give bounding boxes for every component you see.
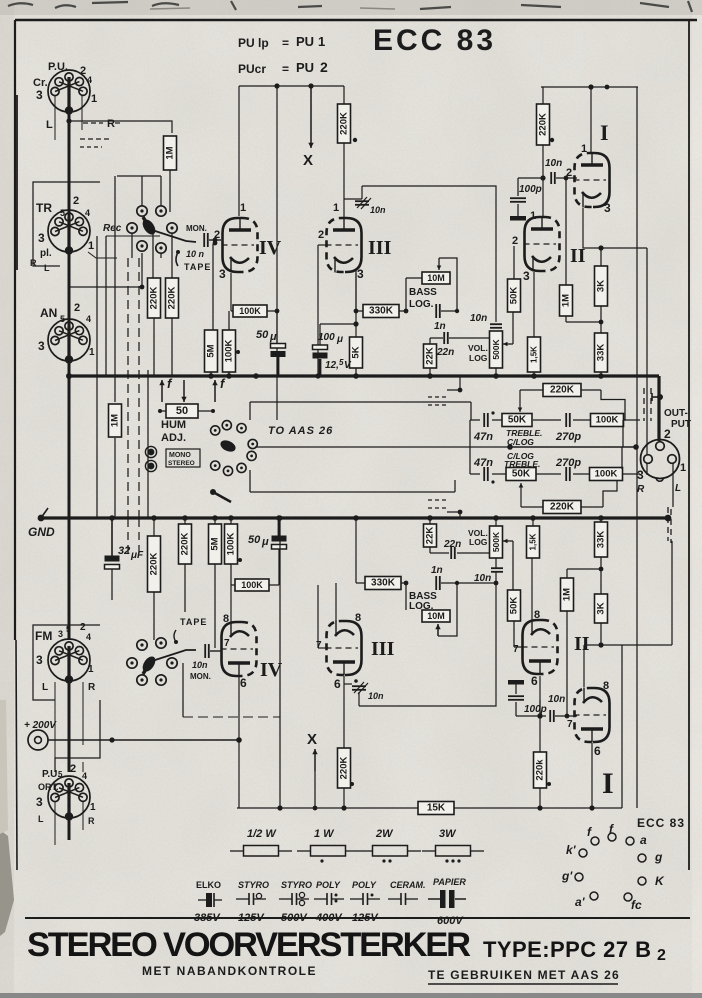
wire 1M down <box>169 170 171 212</box>
svg-text:1: 1 <box>680 462 686 474</box>
svg-text:220K: 220K <box>550 502 575 513</box>
connector TR (tape recorder) <box>48 210 90 255</box>
wire 220K-I joins <box>542 87 544 104</box>
node grid IV <box>213 241 218 246</box>
svg-text:6: 6 <box>594 744 601 758</box>
wire 220K fb bot leads <box>521 506 543 508</box>
wire right loop x638 <box>636 87 638 808</box>
capacitor 47n (top) <box>484 413 488 427</box>
resistor 1M (II grid bottom) <box>561 578 574 611</box>
svg-text:MON.: MON. <box>190 672 211 681</box>
svg-text:100p: 100p <box>524 704 547 715</box>
resistor 220K (rail b) <box>166 278 179 318</box>
svg-text:10n: 10n <box>368 691 384 701</box>
pinout ECC83 pins <box>591 837 599 845</box>
capacitor 22n (top) <box>444 332 448 344</box>
capacitor 32uF (bottom left) <box>105 556 120 570</box>
wire I b to right vert <box>584 644 672 646</box>
resistor 220k (II anode b) <box>534 752 547 788</box>
connector +200V <box>28 730 48 750</box>
connector FM (tuner) <box>48 639 90 684</box>
wire fb bottom loop <box>495 558 497 568</box>
wire tone right verticals <box>622 420 624 447</box>
wire 100p b join <box>515 702 517 716</box>
wire 32u <box>111 518 113 556</box>
svg-text:6: 6 <box>240 676 247 690</box>
wire 330K leads <box>356 310 363 312</box>
capacitor 270p (bot) <box>566 467 570 481</box>
wire 100u <box>319 324 321 345</box>
resistor 220K (I anode) <box>537 104 550 145</box>
svg-text:100p: 100p <box>519 184 542 195</box>
label MONO STEREO <box>166 449 200 467</box>
capacitor 10n (vol in top) <box>490 324 502 328</box>
svg-text:I: I <box>600 120 609 145</box>
wire aas top <box>250 401 471 403</box>
capacitor 47n (bot) <box>484 467 488 481</box>
wire TR center down <box>68 252 71 340</box>
svg-text:μ: μ <box>261 536 269 548</box>
svg-text:2: 2 <box>657 947 666 964</box>
wire 10M arrow <box>406 277 422 279</box>
svg-text:125V: 125V <box>352 912 379 924</box>
svg-text:10n: 10n <box>548 694 565 705</box>
svg-text:R: R <box>107 118 115 130</box>
capacitor 22n (bottom) <box>451 547 455 559</box>
wire heavy to output <box>657 376 660 441</box>
svg-text:32: 32 <box>118 545 130 557</box>
svg-text:k': k' <box>566 843 577 857</box>
svg-text:g: g <box>654 850 663 864</box>
svg-text:TR: TR <box>36 201 52 215</box>
resistor 220K (rail a) <box>148 278 161 318</box>
wire IV cathode down <box>230 273 232 311</box>
wire 50u b <box>278 518 281 536</box>
svg-text:3: 3 <box>38 339 45 353</box>
svg-text:22K: 22K <box>425 527 436 545</box>
wire FM through <box>68 517 71 640</box>
svg-text:10n: 10n <box>370 205 386 215</box>
svg-text:POLY: POLY <box>316 880 341 890</box>
svg-text:3: 3 <box>36 653 43 667</box>
resistor 50 (hum adj) <box>166 404 198 418</box>
wire mon cap to tube IV <box>209 239 221 241</box>
svg-text:33K: 33K <box>596 531 607 549</box>
svg-text:L: L <box>38 814 44 824</box>
wire 100K leads <box>231 310 233 312</box>
svg-text:2W: 2W <box>375 828 394 840</box>
wire fb b stub <box>344 683 352 685</box>
wire x344 segment <box>343 86 345 104</box>
wire aas mid <box>255 446 471 448</box>
wire tape hook top <box>176 252 178 266</box>
box around TR <box>33 182 100 266</box>
svg-text:2: 2 <box>320 59 328 75</box>
svg-text:1M: 1M <box>562 588 573 601</box>
wire mon b to tube IV <box>210 650 221 652</box>
switch lever top <box>140 217 158 237</box>
svg-text:100K: 100K <box>241 580 263 590</box>
svg-text:4: 4 <box>85 208 90 218</box>
node X bottom <box>314 749 316 771</box>
resistor 3K (I cath top) <box>595 266 608 306</box>
wire 220k pair down <box>153 318 155 376</box>
resistor 100K (IV cath R) <box>223 330 236 372</box>
svg-text:6: 6 <box>334 677 341 691</box>
wire PU pin L down <box>54 96 56 140</box>
svg-text:500K: 500K <box>491 338 501 359</box>
tube triode II bottom <box>522 620 558 675</box>
connector AN (aux) <box>48 319 90 364</box>
wire rail down x239 <box>238 86 240 216</box>
svg-text:R: R <box>30 258 37 268</box>
wire 500K wiper <box>503 343 513 345</box>
svg-text:15K: 15K <box>427 803 446 814</box>
wire 33K b <box>600 518 602 522</box>
svg-text:1M: 1M <box>561 294 572 307</box>
svg-text:50K: 50K <box>509 287 520 305</box>
wire rail x128 <box>127 258 129 517</box>
connector OUTPUT <box>641 440 680 479</box>
wire I anode up <box>590 87 592 153</box>
node dot 100K <box>236 350 240 354</box>
svg-text:22n: 22n <box>443 539 461 550</box>
wire rail x117 <box>114 176 116 402</box>
svg-text:TAPE: TAPE <box>180 617 207 627</box>
wire bottom GND bus <box>41 516 668 519</box>
svg-text:22K: 22K <box>425 347 436 365</box>
svg-text:220K: 220K <box>339 757 350 780</box>
node dot near 220K <box>353 138 357 142</box>
wire 330K b leads <box>356 582 365 584</box>
svg-text:10n: 10n <box>474 573 491 584</box>
wire 50 sides <box>160 410 166 412</box>
svg-text:=: = <box>282 36 289 50</box>
svg-text:STEREO: STEREO <box>168 460 195 467</box>
svg-text:PAPIER: PAPIER <box>433 877 466 887</box>
svg-text:STYRO: STYRO <box>281 880 312 890</box>
wire dashed pair near output <box>643 388 645 421</box>
svg-text:PU: PU <box>296 60 314 75</box>
svg-text:3K: 3K <box>596 602 607 614</box>
tube triode IV top <box>222 218 258 273</box>
svg-text:PU: PU <box>296 34 314 49</box>
svg-text:3W: 3W <box>439 828 457 840</box>
svg-text:a: a <box>640 833 647 847</box>
wire PUORT down <box>68 818 71 840</box>
wire 22n wires <box>430 337 443 339</box>
svg-text:HUM: HUM <box>161 419 186 431</box>
resistor 5M (IV grid leak b) <box>209 524 222 564</box>
resistor 50K (II grid bottom) <box>508 590 521 621</box>
svg-text:R: R <box>637 484 645 495</box>
svg-text:10M: 10M <box>427 611 445 621</box>
wire 5M 100K up <box>228 311 230 330</box>
svg-text:50K: 50K <box>508 415 527 426</box>
svg-text:50: 50 <box>256 329 269 341</box>
node bus dots a <box>208 373 214 379</box>
switch lever mid2 <box>210 489 216 495</box>
hatch on 10n fb b <box>354 682 364 693</box>
svg-text:MET NABANDKONTROLE: MET NABANDKONTROLE <box>142 964 317 978</box>
svg-text:100K: 100K <box>596 415 619 426</box>
svg-text:270p: 270p <box>555 431 581 443</box>
resistor 1M (II grid top) <box>560 285 573 316</box>
wire III grid left <box>318 244 326 246</box>
resistor 330K (III cath b) <box>365 577 401 590</box>
wire rail down x277 <box>276 86 278 420</box>
capacitor 100u (III cath bypass) <box>313 345 328 359</box>
svg-text:Rec: Rec <box>103 223 122 234</box>
svg-text:1: 1 <box>88 240 94 252</box>
svg-text:220K: 220K <box>180 533 191 556</box>
resistor 50K (II grid top) <box>508 279 521 312</box>
svg-text:220k: 220k <box>535 759 546 781</box>
svg-text:7: 7 <box>513 644 519 655</box>
svg-text:BASS: BASS <box>409 287 437 298</box>
resistor 5M (IV grid leak) <box>205 330 218 372</box>
svg-text:10 n: 10 n <box>186 249 205 259</box>
ground bar 100p top <box>510 216 526 221</box>
wire dashed stubs right <box>428 396 447 398</box>
resistor 1M (shield) <box>109 404 122 437</box>
svg-text:385V: 385V <box>194 912 221 924</box>
svg-text:7: 7 <box>224 638 230 649</box>
wire 220K to tube III <box>343 143 345 217</box>
wire I b cath up <box>583 645 585 687</box>
svg-text:12,: 12, <box>325 360 339 371</box>
svg-text:3K: 3K <box>596 280 607 292</box>
wire 3K b <box>600 557 602 594</box>
svg-text:=: = <box>282 62 289 76</box>
svg-text:4: 4 <box>82 771 87 781</box>
wire b rails up <box>153 518 155 536</box>
wire top rail y86 <box>239 85 344 87</box>
wire PU center down <box>68 112 71 376</box>
svg-text:II: II <box>574 633 590 655</box>
wire mid to output3 <box>646 463 648 475</box>
svg-text:μ: μ <box>269 331 277 343</box>
capacitor 270p (top) <box>566 413 570 427</box>
wire 15K rail <box>237 807 622 809</box>
svg-text:10M: 10M <box>427 273 445 283</box>
svg-text:1n: 1n <box>434 321 446 332</box>
resistor 330K (III cath) <box>363 305 399 318</box>
capacitor 100p (bottom) <box>508 696 524 700</box>
svg-text:IV: IV <box>260 659 283 681</box>
wire PUORT top box <box>55 700 100 772</box>
wire 100K b leads <box>234 584 236 586</box>
wire treble row bot <box>470 473 480 475</box>
svg-text:100K: 100K <box>226 533 237 556</box>
tube triode III bottom <box>326 621 362 676</box>
svg-text:TAPE: TAPE <box>184 262 211 272</box>
resistor 1,5K (II cath top) <box>528 337 541 372</box>
wire PUORT pins <box>54 802 56 845</box>
svg-text:FM: FM <box>35 629 52 643</box>
wire 1M shield down <box>114 438 116 518</box>
svg-text:2: 2 <box>73 195 79 207</box>
resistor 10M (bass fb bottom) <box>422 610 450 622</box>
tube triode IV bottom <box>221 622 257 677</box>
svg-text:R: R <box>88 682 96 693</box>
wire 1n b join <box>441 582 496 584</box>
wire 1,5K b <box>532 518 534 526</box>
capacitor 50u (IV cath bypass b) <box>272 536 287 550</box>
resistor 3K (I cath bottom) <box>595 594 608 623</box>
capacitor 10n (I coupling) <box>551 172 555 184</box>
wire tone box top <box>459 375 461 377</box>
svg-text:ECC 83: ECC 83 <box>373 24 496 57</box>
svg-text:3: 3 <box>523 269 530 283</box>
node X top <box>310 86 312 148</box>
wire II b cath up <box>531 558 533 620</box>
resistor 220K (b rail a) <box>148 536 161 592</box>
resistor 33K (top) <box>595 333 608 372</box>
svg-text:33K: 33K <box>596 344 607 362</box>
resistor 220K (fb bot) <box>543 501 581 514</box>
wire 50K up <box>513 246 515 279</box>
wire output pin lines <box>672 463 674 507</box>
svg-text:POLY: POLY <box>352 880 377 890</box>
resistor 500K (volume top) <box>490 331 503 368</box>
svg-text:L: L <box>675 483 681 494</box>
wire 10M b arrow <box>437 624 439 636</box>
svg-text:1,5K: 1,5K <box>530 346 539 363</box>
tube triode I top <box>574 153 610 208</box>
svg-text:220K: 220K <box>538 113 549 136</box>
wire II cathode down <box>532 272 534 310</box>
wire X b stub <box>314 771 316 808</box>
capacitor 10n (vol in bottom) <box>491 568 503 572</box>
wire y287 link <box>69 286 142 288</box>
svg-text:220K: 220K <box>149 287 160 310</box>
svg-text:LOG.: LOG. <box>409 299 434 310</box>
wire rail x106 <box>105 236 107 376</box>
wire R branch <box>69 121 172 133</box>
switch mono/stereo contacts <box>148 449 155 456</box>
wire box TR out <box>88 252 117 258</box>
svg-text:X: X <box>307 731 317 748</box>
svg-text:MON.: MON. <box>186 224 207 233</box>
svg-text:125V: 125V <box>238 912 265 924</box>
box around FM <box>33 625 100 700</box>
wire 280 rail <box>279 518 281 808</box>
node PU junction <box>66 118 71 123</box>
svg-text:2: 2 <box>512 235 518 247</box>
capacitor 10n (III anode fb) <box>355 201 369 205</box>
svg-text:220K: 220K <box>550 385 575 396</box>
wire 10M right loop <box>439 258 457 311</box>
svg-text:GND: GND <box>28 525 55 539</box>
wire I cathode chain <box>583 208 647 248</box>
capacitor 10n (III anode fb b) <box>352 686 366 690</box>
wire II anode right <box>601 329 647 331</box>
svg-text:1: 1 <box>90 802 96 813</box>
wire III b grid <box>318 647 326 649</box>
svg-text:X: X <box>303 152 313 169</box>
svg-text:μ: μ <box>336 334 343 345</box>
svg-text:PUcr: PUcr <box>238 62 266 76</box>
svg-text:3: 3 <box>36 795 43 809</box>
wire 500K b wiper <box>503 540 513 542</box>
hatch on 10n fb <box>357 197 367 208</box>
svg-text:4: 4 <box>86 314 91 324</box>
svg-text:MONO: MONO <box>169 452 191 459</box>
svg-text:I: I <box>602 767 614 800</box>
label f arrow left <box>161 380 163 402</box>
svg-text:330K: 330K <box>369 306 394 317</box>
wire right vert down <box>621 645 623 808</box>
svg-text:270p: 270p <box>555 457 581 469</box>
wire 1,5K down <box>533 372 535 376</box>
svg-text:R: R <box>88 816 95 826</box>
wire 5K down <box>355 368 357 376</box>
wire 3K <box>600 248 602 266</box>
svg-text:1,5K: 1,5K <box>529 533 538 550</box>
svg-text:TYPE:PPC 27 B: TYPE:PPC 27 B <box>483 937 651 962</box>
wire aas right verticals <box>470 402 472 420</box>
svg-text:OUT-: OUT- <box>664 408 688 419</box>
resistor 100K (IV cath b) <box>225 524 238 564</box>
svg-text:5K: 5K <box>351 346 362 358</box>
svg-text:2: 2 <box>70 763 76 775</box>
svg-text:III: III <box>368 237 392 259</box>
svg-text:220K: 220K <box>339 112 350 135</box>
svg-text:7: 7 <box>567 719 573 730</box>
svg-text:III: III <box>371 638 395 660</box>
wire 5M 100K down <box>210 372 212 376</box>
svg-text:1: 1 <box>318 34 325 49</box>
resistor 5K (III cath R) <box>350 337 363 368</box>
svg-text:6: 6 <box>531 674 538 688</box>
svg-text:2: 2 <box>318 229 324 241</box>
svg-text:2: 2 <box>214 229 220 241</box>
svg-text:1: 1 <box>89 347 95 358</box>
wire III b cath up <box>335 583 337 622</box>
wire 1M b <box>566 569 568 578</box>
wire top supply bus <box>69 374 659 377</box>
switch contacts (record select bottom) <box>137 675 147 685</box>
svg-text:μF: μF <box>130 550 144 561</box>
label f arrow right <box>214 380 216 402</box>
svg-text:pl.: pl. <box>40 248 52 259</box>
wire III cathode down <box>355 270 357 311</box>
ground bar 100p bottom <box>508 680 524 685</box>
tube triode III top <box>326 218 362 273</box>
wire 220K fb leads <box>520 389 543 391</box>
svg-text:100K: 100K <box>224 340 235 363</box>
connector P.U. (top pickup) <box>48 70 90 115</box>
resistor 100K (treble top) <box>591 414 624 427</box>
svg-text:VOL.: VOL. <box>468 343 488 353</box>
wire I b anode down <box>591 743 593 808</box>
svg-text:1: 1 <box>91 93 97 105</box>
resistor 33K (bottom) <box>595 522 608 557</box>
svg-text:3: 3 <box>58 629 63 639</box>
wire rails to rotary <box>131 233 133 258</box>
svg-text:1M: 1M <box>165 146 176 159</box>
svg-text:3: 3 <box>637 468 644 482</box>
svg-text:+ 200V: + 200V <box>24 720 57 731</box>
svg-text:TE GEBRUIKEN MET AAS 26: TE GEBRUIKEN MET AAS 26 <box>428 968 620 982</box>
svg-text:STEREO VOORVERSTERKER: STEREO VOORVERSTERKER <box>27 926 471 964</box>
svg-text:3: 3 <box>36 88 43 102</box>
svg-text:1n: 1n <box>431 565 443 576</box>
wire rail x148 <box>147 370 149 517</box>
resistor 220K (PU2 load) <box>338 104 351 143</box>
wire 22K up <box>429 338 431 344</box>
